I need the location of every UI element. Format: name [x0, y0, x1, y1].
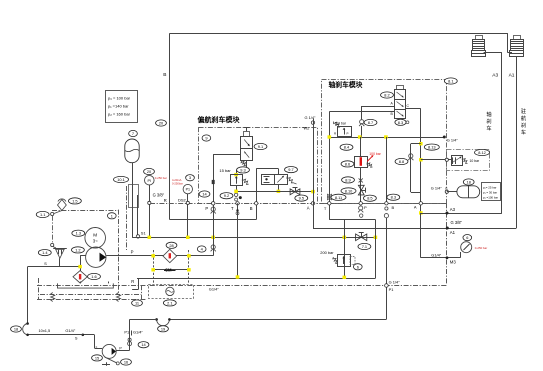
svg-text:3~: 3~: [93, 239, 98, 244]
svg-text:R: R: [131, 279, 134, 284]
svg-text:A3: A3: [492, 73, 498, 79]
svg-text:10.1: 10.1: [117, 177, 125, 182]
svg-text:8.13: 8.13: [428, 145, 436, 150]
svg-text:1.5: 1.5: [72, 198, 77, 203]
svg-text:刹: 刹: [486, 117, 491, 125]
svg-text:G1/4": G1/4": [431, 252, 441, 257]
svg-text:1.1: 1.1: [40, 212, 45, 217]
svg-text:P1: P1: [389, 287, 394, 292]
svg-text:R: R: [164, 198, 167, 203]
svg-text:1.4: 1.4: [42, 250, 48, 255]
svg-text:P: P: [347, 131, 349, 135]
svg-text:B: B: [163, 72, 166, 78]
svg-text:DS2: DS2: [178, 197, 187, 202]
svg-text:p₀ = 100 bar: p₀ = 100 bar: [108, 96, 131, 101]
svg-text:18: 18: [467, 179, 471, 184]
svg-text:8.11: 8.11: [335, 195, 342, 200]
svg-text:8.4: 8.4: [344, 145, 350, 150]
svg-text:A1: A1: [509, 73, 515, 79]
svg-text:8.3: 8.3: [391, 195, 396, 200]
svg-text:7: 7: [132, 131, 134, 136]
svg-text:p₂ = 160 bar: p₂ = 160 bar: [108, 112, 131, 117]
svg-text:8.5: 8.5: [367, 196, 372, 201]
svg-text:9.7: 9.7: [288, 167, 293, 172]
svg-text:9.1: 9.1: [258, 144, 263, 149]
svg-text:G 1/4": G 1/4": [447, 138, 459, 143]
svg-text:28: 28: [169, 243, 173, 248]
svg-text:15: 15: [95, 355, 99, 360]
svg-text:7.1: 7.1: [362, 244, 367, 249]
svg-text:2.1: 2.1: [167, 300, 172, 305]
svg-text:8.6: 8.6: [345, 161, 350, 166]
svg-text:刹: 刹: [521, 121, 526, 129]
svg-text:偏航刹车模块: 偏航刹车模块: [198, 115, 241, 124]
svg-text:B: B: [250, 206, 253, 211]
svg-text:M3: M3: [450, 260, 457, 265]
svg-text:19: 19: [161, 326, 165, 331]
svg-text:P: P: [131, 249, 134, 254]
svg-text:18: 18: [14, 326, 18, 331]
svg-text:驻: 驻: [521, 107, 526, 115]
svg-text:0-250bar: 0-250bar: [172, 181, 183, 185]
svg-text:6: 6: [466, 235, 468, 240]
svg-text:P1: P1: [124, 330, 129, 335]
svg-text:P: P: [205, 206, 208, 211]
svg-text:6: 6: [357, 264, 359, 269]
svg-text:200 bar: 200 bar: [320, 250, 334, 255]
svg-text:S: S: [44, 261, 47, 266]
svg-text:8.7: 8.7: [368, 120, 373, 125]
svg-text:16: 16: [124, 359, 128, 364]
svg-text:9.2: 9.2: [224, 193, 229, 198]
svg-text:10 bar: 10 bar: [470, 159, 480, 163]
svg-text:S: S: [75, 336, 78, 341]
svg-text:p₁ = 30 bar: p₁ = 30 bar: [483, 190, 497, 194]
svg-text:p₁ =140 bar: p₁ =140 bar: [108, 104, 129, 109]
svg-text:0-250 bar: 0-250 bar: [155, 176, 167, 180]
svg-text:A3: A3: [450, 207, 456, 212]
svg-text:P: P: [364, 205, 367, 210]
svg-text:8.10: 8.10: [345, 188, 353, 193]
svg-text:A: A: [307, 206, 310, 211]
svg-text:p₂ =100 bar: p₂ =100 bar: [483, 195, 498, 199]
svg-text:3: 3: [189, 175, 191, 180]
svg-text:车: 车: [486, 124, 491, 132]
svg-text:p₀= 25 bar: p₀= 25 bar: [483, 185, 497, 189]
svg-text:PI: PI: [148, 179, 152, 183]
svg-text:4-20mA: 4-20mA: [172, 178, 182, 182]
svg-text:G 3/8": G 3/8": [451, 220, 463, 225]
svg-text:G 3/8": G 3/8": [153, 193, 165, 198]
svg-text:1.3: 1.3: [76, 231, 81, 236]
svg-text:0-250 bar: 0-250 bar: [475, 246, 487, 250]
svg-text:G 1/4": G 1/4": [431, 185, 443, 190]
svg-text:P1: P1: [186, 188, 190, 192]
svg-text:G 1/4": G 1/4": [305, 115, 317, 120]
svg-text:A1: A1: [450, 230, 456, 235]
svg-text:M: M: [93, 233, 97, 238]
svg-text:G 1/4": G 1/4": [389, 280, 401, 285]
svg-text:航: 航: [521, 114, 527, 122]
svg-text:W2: W2: [304, 126, 310, 131]
svg-text:9.5: 9.5: [299, 196, 304, 201]
svg-text:15 bar: 15 bar: [219, 168, 231, 173]
svg-text:轴刹车模块: 轴刹车模块: [329, 80, 363, 89]
svg-text:B: B: [392, 205, 395, 210]
svg-text:G1/4": G1/4": [133, 330, 143, 335]
svg-text:11: 11: [135, 300, 139, 305]
svg-text:8.2: 8.2: [384, 92, 389, 97]
svg-text:S1: S1: [141, 230, 147, 235]
svg-text:100 bar: 100 bar: [369, 152, 381, 156]
svg-text:10x1,5: 10x1,5: [39, 328, 51, 333]
svg-text:110 bar: 110 bar: [335, 122, 347, 126]
svg-text:T: T: [231, 206, 234, 211]
svg-text:1.6: 1.6: [91, 274, 96, 279]
svg-text:G1/4": G1/4": [65, 328, 75, 333]
svg-text:G1/4": G1/4": [209, 286, 219, 291]
svg-text:8.1: 8.1: [448, 78, 453, 83]
svg-text:轴: 轴: [486, 110, 491, 118]
svg-text:8.3: 8.3: [398, 120, 403, 125]
svg-text:8.8: 8.8: [399, 159, 404, 164]
svg-text:8.12: 8.12: [478, 150, 486, 155]
svg-text:1: 1: [111, 213, 113, 218]
svg-text:A: A: [414, 205, 417, 210]
svg-text:8.9: 8.9: [345, 177, 350, 182]
svg-text:车: 车: [521, 128, 526, 136]
svg-text:1.2: 1.2: [75, 247, 80, 252]
svg-text:9: 9: [205, 135, 207, 140]
svg-text:9.3: 9.3: [240, 167, 245, 172]
